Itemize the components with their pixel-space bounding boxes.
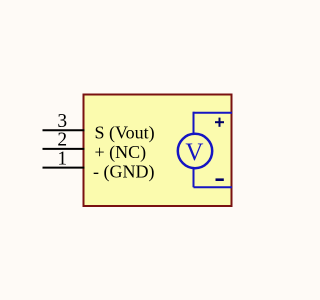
svg-text:+ (NC): + (NC) [95,142,147,163]
svg-text:1: 1 [57,148,67,169]
svg-text:V: V [185,139,203,166]
svg-text:S (Vout): S (Vout) [95,123,155,144]
svg-text:- (GND): - (GND) [93,162,154,183]
